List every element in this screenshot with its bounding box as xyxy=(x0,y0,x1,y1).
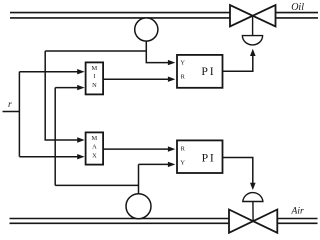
svg-text:Air: Air xyxy=(291,205,305,216)
svg-text:Y: Y xyxy=(180,160,185,167)
svg-text:r: r xyxy=(8,100,12,110)
svg-text:A: A xyxy=(92,144,97,151)
svg-text:I: I xyxy=(210,65,214,78)
svg-text:I: I xyxy=(210,151,214,164)
svg-text:R: R xyxy=(181,73,186,80)
svg-text:X: X xyxy=(92,152,97,159)
svg-text:R: R xyxy=(181,145,186,152)
svg-text:I: I xyxy=(93,73,95,80)
svg-text:Oil: Oil xyxy=(291,2,304,13)
svg-text:M: M xyxy=(92,65,98,72)
svg-text:P: P xyxy=(201,65,208,78)
svg-text:M: M xyxy=(92,135,98,142)
svg-text:N: N xyxy=(92,82,97,89)
svg-text:P: P xyxy=(202,151,209,164)
svg-text:Y: Y xyxy=(180,59,185,66)
